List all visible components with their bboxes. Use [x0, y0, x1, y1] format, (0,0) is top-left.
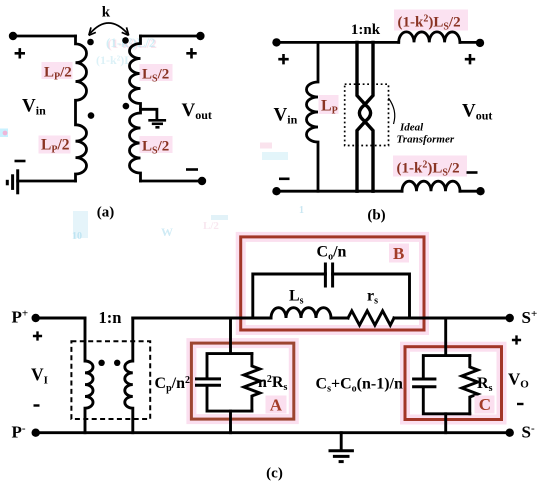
capacitor Cs+Co(n-1)/n plates (c)	[414, 379, 435, 387]
svg-text:B: B	[393, 244, 404, 263]
coupling arrow k (a)	[89, 23, 129, 35]
wire center-tap (a)	[141, 109, 157, 119]
inductor Ls (c)	[271, 308, 331, 318]
node terminal bottom-right (a)	[198, 177, 206, 185]
label LS/2 upper (a)	[140, 64, 173, 81]
minus sign right (a)	[186, 168, 198, 171]
wire bottom-right (a)	[141, 180, 203, 183]
svg-text:Ideal: Ideal	[399, 122, 424, 134]
svg-text:(b): (b)	[367, 208, 385, 224]
label LS/2 lower (a)	[140, 136, 173, 153]
parallel loop C (c)	[423, 356, 470, 414]
minus sign right (c)	[517, 403, 524, 405]
wire rail right of rs (c)	[394, 317, 510, 320]
label A (c)	[266, 396, 287, 414]
svg-text:(1-k2)LS/2: (1-k2)LS/2	[397, 160, 460, 179]
node P terminal top-left (a)	[9, 32, 17, 40]
svg-text:L/2: L/2	[203, 220, 219, 232]
plus sign right (c)	[512, 335, 521, 344]
wire rail between Ls and rs (c)	[331, 317, 348, 320]
inductor LS/2 right coil (a)	[130, 36, 141, 181]
branch wire to C (c)	[444, 318, 447, 433]
wire top-left (a)	[13, 35, 76, 38]
highlight box A	[191, 343, 293, 419]
wire bottom (b)	[277, 190, 403, 193]
ground bars (c)	[329, 451, 354, 462]
node S+ terminal (c)	[506, 314, 514, 322]
ghost artifact 10 below (a)	[73, 211, 88, 238]
node terminal top-left (b)	[272, 38, 280, 46]
plus sign left (a)	[15, 48, 25, 58]
polarity dot primary (c)	[98, 360, 104, 366]
node terminal bottom-left (b)	[272, 187, 280, 195]
highlight box C	[405, 347, 502, 420]
minus sign left (b)	[279, 178, 290, 181]
transformer secondary coil (c)	[125, 318, 133, 433]
svg-text:n2Rs: n2Rs	[258, 374, 287, 393]
polarity dot left coil top (a)	[87, 39, 94, 46]
resistor Rs (c)	[462, 356, 478, 414]
node terminal top-right (b)	[476, 39, 484, 47]
capacitor Co/n plates (c)	[325, 264, 332, 286]
svg-text:W: W	[161, 225, 173, 239]
svg-text:(a): (a)	[97, 205, 115, 221]
node P+ terminal (c)	[32, 314, 40, 322]
polarity dot right coil top (a)	[122, 37, 129, 44]
ghost artifact near Vin (b)	[260, 143, 272, 149]
wire top-right (b)	[460, 41, 480, 44]
label B (c)	[389, 244, 409, 263]
ghost artifact blob left edge	[0, 129, 8, 138]
ghost artifact dash below (a)	[211, 215, 228, 220]
plus sign right (a)	[186, 48, 196, 58]
svg-text:Transformer: Transformer	[397, 134, 455, 146]
svg-text:(1-k2)LS/2: (1-k2)LS/2	[398, 14, 461, 33]
wire bottom rail (c)	[36, 431, 510, 434]
svg-text:k: k	[102, 5, 111, 21]
minus sign left (a)	[15, 160, 26, 163]
parallel loop A (c)	[207, 354, 252, 412]
label C (c)	[475, 396, 495, 414]
ground stem (c)	[340, 433, 343, 450]
minus sign right (b)	[467, 171, 478, 174]
label LP/2 upper (a)	[42, 62, 73, 79]
svg-text:10: 10	[72, 231, 82, 242]
label LP (b)	[319, 95, 339, 114]
branch wire to A (c)	[229, 318, 232, 433]
polarity dot left coil mid (a)	[88, 112, 95, 119]
label LP/2 lower (a)	[39, 136, 71, 154]
polarity dot secondary (c)	[114, 360, 120, 366]
capacitor Cp/n2 plates (c)	[197, 379, 220, 385]
node terminal top-right (a)	[196, 32, 204, 40]
ground (rotated) at source (a)	[7, 169, 17, 194]
wire top rail right (c)	[133, 317, 271, 320]
ideal transformer U1 (b)	[357, 42, 373, 191]
minus sign left (c)	[34, 404, 40, 406]
svg-text:(c): (c)	[266, 466, 283, 482]
inductor LP/2 left coil (a)	[76, 36, 87, 181]
transformer dashed box (c)	[71, 341, 150, 419]
wire bottom-right (b)	[460, 190, 481, 193]
wire top (b)	[277, 41, 399, 44]
svg-text:Cp/n2: Cp/n2	[155, 375, 190, 394]
callout curve (b)	[389, 98, 395, 124]
resistor rs (c)	[348, 311, 394, 325]
svg-text:C: C	[479, 395, 491, 414]
dashed box ideal transformer (b)	[345, 84, 389, 145]
svg-text:1: 1	[299, 205, 304, 216]
label (1-k2)LS/2 top (b)	[394, 10, 468, 31]
svg-text:1:nk: 1:nk	[351, 22, 381, 38]
loop B left/top/right (c)	[253, 274, 410, 318]
label (1-k2)LS/2 bottom (b)	[393, 156, 467, 177]
svg-text:(1-k²)L: (1-k²)L	[96, 53, 132, 67]
plus sign left (b)	[278, 54, 288, 64]
highlight box B	[241, 237, 424, 330]
plus sign left (c)	[33, 331, 42, 340]
svg-text:1:n: 1:n	[99, 308, 122, 327]
svg-text:A: A	[270, 396, 283, 415]
node terminal bottom-right (b)	[476, 187, 484, 195]
polarity dot right coil mid (a)	[123, 103, 130, 110]
wire bottom-left (a)	[18, 180, 76, 183]
inductor (1-k2)LS/2 top (b)	[399, 32, 460, 43]
resistor n2Rs (c)	[244, 354, 260, 412]
ground at center tap (a)	[148, 120, 166, 127]
inductor (1-k2)LS/2 bottom (b)	[402, 181, 460, 191]
transformer primary coil (c)	[85, 318, 93, 433]
node S- terminal (c)	[506, 429, 514, 437]
wire top-right (a)	[141, 35, 201, 38]
wire top rail left (c)	[36, 317, 85, 320]
node P- terminal (c)	[32, 429, 40, 437]
plus sign right (b)	[465, 54, 475, 64]
inductor LP shunt (b)	[307, 42, 319, 191]
